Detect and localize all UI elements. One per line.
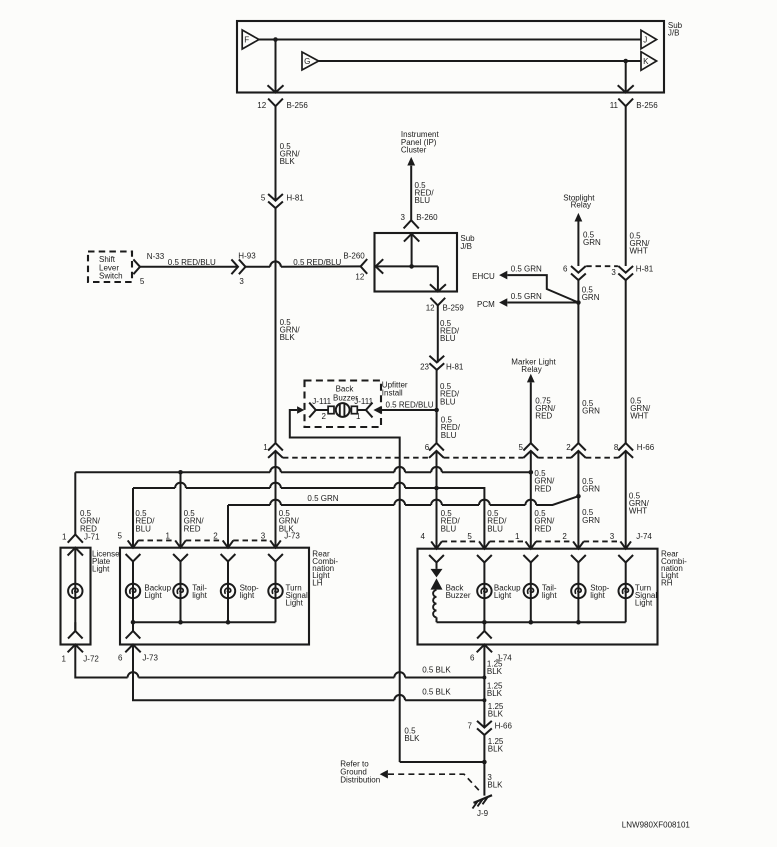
svg-text:Relay: Relay [571,201,591,210]
connector K [641,52,657,71]
svg-text:BLU: BLU [441,524,457,533]
svg-text:3: 3 [610,532,615,541]
svg-text:1: 1 [166,532,171,541]
svg-text:Light: Light [286,599,304,608]
lamp license [68,584,82,598]
svg-text:BLK: BLK [280,157,296,166]
svg-text:Distribution: Distribution [340,776,380,785]
RH turn entry [620,541,631,548]
node tail bus join [529,470,534,475]
wire 0.5 RED/BLU mid [436,370,438,410]
wire 0.5 RED/BLU [140,266,238,268]
wire buzzer right [357,409,366,411]
svg-text:light: light [192,591,207,600]
connector B-256 pin 12 [268,99,283,107]
back buzzer RH diodes [431,569,443,578]
wire 0.5 GRN to EHCU [507,275,578,302]
connector B-260 pin 12 [361,259,368,274]
wire RH stop [577,563,579,623]
connector H-66 pin 6 [429,443,444,458]
connector H-81 pin 23 [429,356,444,370]
svg-text:7: 7 [468,721,473,730]
svg-text:light: light [240,591,255,600]
svg-text:J-74: J-74 [636,532,652,541]
svg-text:BLU: BLU [487,524,503,533]
svg-text:J/B: J/B [668,29,680,38]
connector J-111 pin 1 [366,403,373,418]
arrow to EHCU [499,271,507,280]
svg-text:2: 2 [562,532,567,541]
wire 0.5 GRN to PCM [507,302,578,304]
connector H-66 pin 7 [477,721,492,735]
wire 0.5 GRN/BLK lower [275,208,277,443]
svg-text:4: 4 [421,532,426,541]
svg-text:BLK: BLK [280,333,296,342]
license exit [68,622,83,638]
svg-text:0.5 RED/BLU: 0.5 RED/BLU [168,258,216,267]
dashed link H-81 [586,265,618,267]
svg-text:1: 1 [62,655,67,664]
svg-text:B-259: B-259 [443,303,465,312]
svg-text:J-111: J-111 [312,397,331,406]
refer dashed line [388,774,481,792]
wire LH ground 0.5 BLK [133,645,394,701]
svg-text:H-93: H-93 [238,252,256,261]
connector F [242,30,259,49]
wire RH backup [483,563,485,623]
arrow to Instrument Panel [407,157,415,166]
svg-text:0.5 BLK: 0.5 BLK [422,666,451,675]
svg-text:GRN: GRN [582,407,600,416]
connector G [302,52,319,70]
lamp box Rear Combination Light RH [418,549,658,645]
wire RH tail [530,563,532,623]
svg-text:J: J [643,35,647,44]
svg-text:Light: Light [635,599,653,608]
svg-text:EHCU: EHCU [472,272,495,281]
wire stop bus row3 [228,504,270,506]
svg-text:Light: Light [494,591,512,600]
internal wire horizontal [376,265,438,267]
lamp RH turn [619,584,633,598]
svg-text:12: 12 [257,101,266,110]
svg-text:12: 12 [355,272,364,281]
wire buzzer ground [290,410,400,762]
svg-text:3: 3 [401,213,406,222]
svg-text:Back: Back [336,384,355,393]
connector J-71 pin 1 [68,535,83,543]
svg-text:11: 11 [610,101,619,110]
connector H-66 pin 8 [618,443,633,458]
svg-text:H-81: H-81 [286,193,304,202]
svg-text:BLU: BLU [440,334,456,343]
lamp RH backup [477,584,491,598]
svg-text:G: G [304,57,310,66]
connector B-260 pin 3 [404,220,419,228]
svg-text:BLK: BLK [488,745,504,754]
svg-text:5: 5 [140,277,145,286]
wire 0.5 GRN/BLK upper [275,106,277,200]
svg-text:Buzzer: Buzzer [446,591,471,600]
wire drop to pin 11 [625,61,627,93]
svg-text:BLK: BLK [487,781,503,790]
svg-text:6: 6 [563,264,568,273]
svg-text:J-111: J-111 [354,397,373,406]
svg-text:5: 5 [261,193,266,202]
RH buzzer entry [431,541,442,548]
svg-text:BLU: BLU [440,397,456,406]
wire 0.5 GRN stop lower [577,303,579,444]
dashed harness J-74 [442,540,480,542]
wire RH turn [625,563,627,623]
wire buzzer ground to junction [400,761,485,763]
svg-text:RED: RED [184,524,201,533]
svg-text:BLK: BLK [404,734,420,743]
wire LH turn drop [275,451,277,548]
back buzzer RH coil [433,590,436,617]
node LH tail join [178,470,183,475]
svg-text:J-71: J-71 [84,532,100,541]
connector H-81 pin 3 right [618,266,633,280]
svg-text:Cluster: Cluster [401,146,427,155]
node on G wire [623,59,628,64]
wire 0.5 GRN/WHT lower [625,280,627,443]
svg-text:2: 2 [566,443,571,452]
lamp RH stop [571,584,585,598]
svg-text:0.5 GRN: 0.5 GRN [511,265,542,274]
wire 0.5 RED/BLU to IP cluster [410,166,412,221]
LH stop entry [223,540,234,547]
svg-text:6: 6 [470,654,475,663]
svg-text:B-260: B-260 [416,213,438,222]
svg-text:1: 1 [356,412,361,421]
wire G to K [319,60,641,62]
svg-text:0.5 RED/BLU: 0.5 RED/BLU [293,258,341,267]
wire RH ground bus [437,621,626,623]
wire 0.5 GRN stop mid [577,280,579,302]
svg-text:BLK: BLK [487,667,503,676]
svg-text:J-73: J-73 [284,532,300,541]
node on F wire [273,37,278,42]
svg-text:Light: Light [144,591,162,600]
junction block Sub J/B (B-260) [375,233,458,292]
svg-text:5: 5 [118,532,123,541]
svg-text:F: F [244,35,249,44]
wire tail bus row1 [75,471,270,473]
lamp RH tail [524,584,538,598]
svg-text:3: 3 [611,268,616,277]
svg-text:B-256: B-256 [636,101,658,110]
svg-text:LNW980XF008101: LNW980XF008101 [622,820,691,829]
wire RH turn drop [625,451,627,549]
svg-text:WHT: WHT [629,507,647,516]
wire 1.25 BLK lower [483,735,485,796]
internal node [409,264,414,269]
node ground junction [482,760,487,765]
svg-text:BLK: BLK [487,689,503,698]
svg-text:GRN: GRN [582,485,600,494]
svg-text:3: 3 [261,532,266,541]
svg-text:K: K [643,57,649,66]
lamp License Plate Light box [61,548,91,645]
dashed harness J-73 [138,539,175,541]
connector N-33 pin 5 [133,259,140,274]
wire 0.5 RED/BLU b259 [437,305,439,362]
wire license internal [74,548,76,631]
svg-text:RED: RED [534,524,551,533]
svg-text:BLU: BLU [135,524,151,533]
svg-text:2: 2 [322,412,327,421]
svg-text:3: 3 [239,277,244,286]
wire drop to pin 12 [275,40,277,93]
svg-text:5: 5 [519,443,524,452]
svg-text:BLK: BLK [488,710,504,719]
svg-text:0.5 RED/BLU: 0.5 RED/BLU [386,400,434,409]
RH exit [477,622,492,638]
svg-text:J-9: J-9 [477,809,489,818]
svg-text:2: 2 [213,532,218,541]
connector J-111 pin 2 [297,406,304,414]
svg-text:GRN: GRN [582,293,600,302]
LH turn entry [270,540,281,547]
svg-text:light: light [542,591,557,600]
arrow to stoplight relay [575,213,583,222]
lamp LH stop [221,584,235,598]
refer to ground arrow [380,770,388,779]
RH backup entry [479,541,490,548]
svg-text:light: light [590,591,605,600]
connector B-256 pin 11 [618,99,633,107]
svg-text:GRN: GRN [582,516,600,525]
RH tail entry [526,541,537,548]
wire 0.5 RED/BLU to B-260 [246,266,271,268]
svg-text:RED: RED [80,524,97,533]
svg-text:RH: RH [661,578,673,587]
LH tail entry [175,540,186,547]
internal wire down to B-259 [437,266,439,291]
wire marker / RH tail drop [530,451,532,549]
svg-text:LH: LH [312,578,322,587]
arrow to PCM [499,298,507,307]
svg-text:12: 12 [426,303,435,312]
connector J [641,30,657,49]
svg-text:J-73: J-73 [142,654,158,663]
wire LH ground bus [133,621,276,623]
svg-text:0.5 BLK: 0.5 BLK [422,687,451,696]
LH exit [126,622,141,638]
wire license ground 0.5 BLK [75,645,127,678]
svg-text:1: 1 [62,532,67,541]
lamp LH tail [173,584,187,598]
svg-text:Relay: Relay [521,365,541,374]
wire F to J [259,39,641,41]
svg-text:PCM: PCM [477,300,495,309]
svg-text:BLU: BLU [415,196,431,205]
svg-text:0.5 GRN: 0.5 GRN [511,292,542,301]
svg-text:0.5 GRN: 0.5 GRN [307,494,338,503]
connector H-93 pin 3 [231,259,238,274]
svg-text:RED: RED [534,484,551,493]
svg-text:H-81: H-81 [636,264,654,273]
wire stop drop [577,451,579,549]
connector H-66 pin 2 [571,443,586,458]
switch Shift Lever Switch [88,252,132,283]
node back buzzer tap [434,408,439,413]
svg-text:23: 23 [420,362,429,371]
wire 0.5 GRN stoplight [577,222,579,267]
wire buzzer left [316,409,328,411]
wire 0.5 RED/BLU to H-66 [436,410,438,443]
junction block Sub J/B (top) [237,21,664,93]
svg-text:BLU: BLU [441,431,457,440]
svg-text:N-33: N-33 [147,252,165,261]
node stop circuit [576,300,581,305]
wire RH buzzer drop [436,451,438,549]
ground J-9 [474,795,493,803]
arrow to marker light relay [527,374,535,383]
svg-text:8: 8 [614,443,619,452]
svg-text:H-81: H-81 [446,362,464,371]
svg-text:WHT: WHT [630,247,648,256]
lamp LH turn [268,584,282,598]
svg-text:Light: Light [92,565,110,574]
node ground join B [482,698,486,702]
upfitter install box [305,381,382,428]
svg-text:1: 1 [515,532,520,541]
lamp LH backup [126,584,140,598]
connector H-81 pin 5 [268,194,283,208]
connector H-81 pin 6 [571,266,586,280]
lamp box Rear Combination Light LH [120,548,309,645]
node ground join A [482,676,486,680]
wire backup bus row2 [133,487,175,489]
dashed harness H-66 [283,457,429,459]
internal wire entry arrow [376,259,384,273]
svg-text:J-72: J-72 [83,655,99,664]
svg-text:J/B: J/B [460,242,472,251]
RH stop entry [573,541,584,548]
svg-text:WHT: WHT [630,412,648,421]
svg-text:H-66: H-66 [637,443,655,452]
svg-text:Switch: Switch [99,272,123,281]
wire 0.5 RED/BLU buzzer feed [382,409,437,411]
wire RH ground 1.25 BLK [483,645,485,728]
arrow buzzer feed [373,406,381,415]
internal wire up to B-260 pin 3 [411,234,413,267]
wire RH buzzer to bus [436,617,438,622]
wire LH tail drop [180,472,182,547]
LH backup entry [128,540,139,547]
svg-text:1: 1 [263,443,268,452]
svg-text:6: 6 [425,443,430,452]
svg-text:B-260: B-260 [343,252,365,261]
node stop bus join [576,494,581,499]
back buzzer RH stem [436,563,438,569]
connector H-66 pin 1 [268,443,283,458]
node backup bus join [434,486,439,491]
wire 0.75 GRN/RED [530,382,532,443]
back buzzer (upfitter) [328,406,334,413]
svg-text:B-256: B-256 [287,101,309,110]
svg-text:Install: Install [382,388,403,397]
svg-text:H-66: H-66 [495,721,513,730]
license entry chevron [68,548,83,556]
svg-text:GRN: GRN [583,238,601,247]
svg-text:6: 6 [118,654,123,663]
svg-text:RED: RED [535,412,552,421]
connector B-259 pin 12 [430,298,445,306]
connector H-66 pin 5 [523,443,538,458]
svg-text:5: 5 [467,532,472,541]
wire 0.5 GRN/WHT upper [625,106,627,266]
